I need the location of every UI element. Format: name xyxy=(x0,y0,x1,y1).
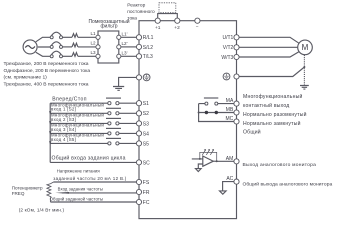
wire S1 xyxy=(50,102,136,104)
terminal FC xyxy=(136,199,149,206)
wire phase L2 from source to contactor xyxy=(38,46,50,48)
PE symbol left xyxy=(143,74,150,81)
wire U/T1 to motor xyxy=(239,37,299,43)
svg-text:MA: MA xyxy=(226,98,234,104)
breaker pole 2 xyxy=(72,43,78,47)
svg-text:R/L1: R/L1 xyxy=(143,35,154,41)
wire AC to earth xyxy=(223,182,234,191)
dashed earth lead from motor xyxy=(303,55,305,85)
terminal W/T3 xyxy=(221,54,239,61)
svg-text:S4: S4 xyxy=(143,131,149,137)
terminal MB xyxy=(226,107,239,115)
junction dot MB xyxy=(198,112,200,114)
PE symbol right xyxy=(223,73,230,80)
svg-text:Трехфазное, 200 В переменного: Трехфазное, 200 В переменного тока xyxy=(4,61,89,67)
wire breaker to filter L1 xyxy=(78,36,96,38)
contactor pole 2 xyxy=(50,42,62,49)
svg-text:FC: FC xyxy=(143,200,150,206)
svg-text:L3': L3' xyxy=(122,50,128,55)
terminal MC xyxy=(226,116,240,124)
svg-text:L2: L2 xyxy=(91,40,97,45)
svg-text:S3: S3 xyxy=(143,121,149,127)
AC source G1 xyxy=(23,40,37,54)
relay NO contact xyxy=(199,98,234,105)
breaker pole 1 xyxy=(72,34,78,38)
terminal ground left xyxy=(136,75,141,80)
svg-text:Общий входа задания цикла: Общий входа задания цикла xyxy=(52,155,126,162)
wire breaker to filter L2 xyxy=(78,46,96,48)
wire S5 xyxy=(50,142,136,144)
svg-text:Вход задания частоты: Вход задания частоты xyxy=(58,186,103,191)
svg-text:W/T3: W/T3 xyxy=(221,55,233,61)
wire ground to motor earth xyxy=(239,67,304,77)
relay common bracket xyxy=(199,104,234,122)
svg-text:S2: S2 xyxy=(143,111,149,117)
input labels xyxy=(52,96,87,102)
pot labels xyxy=(12,186,103,213)
svg-text:(см. примечание 1): (см. примечание 1) xyxy=(4,75,48,81)
junction dot AM xyxy=(216,160,218,162)
wire breaker to filter L3 xyxy=(78,55,96,57)
relay NC contact xyxy=(199,111,234,114)
svg-text:фильтр: фильтр xyxy=(100,24,117,30)
filter terminal L3 xyxy=(96,54,100,58)
filter terminal L2 xyxy=(96,45,100,49)
frequency supply note xyxy=(53,169,126,181)
analog output labels xyxy=(243,162,333,188)
earth symbol at motor xyxy=(300,86,309,90)
svg-text:Общий: Общий xyxy=(243,129,261,136)
wire phase L1 from source to contactor xyxy=(36,37,50,42)
svg-text:AC: AC xyxy=(226,176,233,182)
terminal FS xyxy=(136,179,149,186)
svg-text:Потенциометр: Потенциометр xyxy=(12,186,43,191)
terminal SC xyxy=(136,160,150,167)
contactor pole 1 xyxy=(50,32,62,39)
relay output labels xyxy=(243,93,307,136)
arrow junction S3 xyxy=(49,121,51,124)
svg-text:L1': L1' xyxy=(122,31,128,36)
terminal ground right xyxy=(234,74,239,79)
wire FS xyxy=(54,181,137,183)
svg-text:контактный выход: контактный выход xyxy=(243,102,289,109)
switch S4 xyxy=(106,128,121,135)
svg-text:(2 кОм, 1/4 Вт мин.): (2 кОм, 1/4 Вт мин.) xyxy=(19,207,65,212)
terminal S3 xyxy=(136,121,149,128)
svg-text:S1: S1 xyxy=(143,101,149,107)
svg-text:Общий выхода аналогового монит: Общий выхода аналогового монитора xyxy=(243,181,333,188)
switch S1 xyxy=(106,98,121,105)
svg-text:MC: MC xyxy=(226,116,234,122)
wire FR xyxy=(62,192,136,194)
svg-text:Общий заданной частоты: Общий заданной частоты xyxy=(50,197,104,202)
terminal R/L1 xyxy=(136,35,153,42)
svg-text:T/L3: T/L3 xyxy=(143,54,153,60)
arrow junction S5 xyxy=(49,141,51,144)
svg-text:AM: AM xyxy=(226,156,234,162)
terminal V/T2 xyxy=(223,45,239,52)
wire pole3 to breaker xyxy=(63,55,73,57)
svg-text:SC: SC xyxy=(143,160,150,166)
arrow junction S2 xyxy=(49,111,51,114)
svg-text:вход 3 [S4]: вход 3 [S4] xyxy=(51,127,76,132)
filter terminal L3' xyxy=(117,54,121,58)
wire AM xyxy=(213,160,234,162)
terminal minus xyxy=(195,18,200,30)
earth at AC xyxy=(220,191,227,194)
junction dot motor earth xyxy=(303,66,305,68)
DC reactor dashed box xyxy=(159,3,176,13)
terminal S/L2 xyxy=(136,44,153,50)
svg-text:Выход аналогового монитора: Выход аналогового монитора xyxy=(243,162,317,168)
wire V/T2 to motor xyxy=(239,46,298,48)
wire filter L3' to T/L3 xyxy=(121,55,136,57)
feedback resistor R-fb xyxy=(200,150,217,162)
wire pole2 to breaker xyxy=(63,46,73,48)
svg-text:L1: L1 xyxy=(91,31,97,36)
terminal U/T1 xyxy=(222,35,239,42)
terminal AC xyxy=(226,176,239,184)
svg-text:Напряжение питания: Напряжение питания xyxy=(57,169,100,174)
source voltage note xyxy=(4,61,91,87)
terminal T/L3 xyxy=(136,54,153,61)
svg-text:постоянного: постоянного xyxy=(127,10,155,15)
terminal S4 xyxy=(136,131,149,138)
breaker pole 3 xyxy=(72,53,78,57)
inverter box U1 xyxy=(139,21,237,219)
svg-text:L3: L3 xyxy=(91,50,97,55)
svg-text:Однофазное, 200 В переменного: Однофазное, 200 В переменного тока xyxy=(4,68,91,74)
terminal S2 xyxy=(136,111,149,117)
filter terminal L2' xyxy=(117,45,121,49)
svg-text:Нормально замкнутый: Нормально замкнутый xyxy=(243,120,301,127)
svg-text:FR: FR xyxy=(143,190,150,196)
terminal S1 xyxy=(136,101,149,108)
svg-text:тока: тока xyxy=(127,16,137,21)
switch S5 xyxy=(106,138,121,145)
wire phase L3 from source to contactor xyxy=(36,52,50,56)
svg-text:вход 4 [S5]: вход 4 [S5] xyxy=(51,137,76,142)
wire pole1 to breaker xyxy=(63,36,73,38)
earth wire from ground terminal xyxy=(119,77,137,86)
wire filter L2' to S/L2 xyxy=(121,46,136,48)
switch S3 xyxy=(106,118,121,125)
jumper link +1 to +2 xyxy=(158,14,178,19)
digital input bus xyxy=(49,103,51,162)
terminal AM xyxy=(226,156,239,164)
wire S3 xyxy=(50,122,136,124)
svg-text:V/T2: V/T2 xyxy=(223,45,234,51)
svg-text:Реактор: Реактор xyxy=(127,2,145,8)
wire FC xyxy=(50,201,136,203)
contactor pole 3 xyxy=(50,51,62,58)
filter terminal L1' xyxy=(117,35,121,39)
svg-text:U/T1: U/T1 xyxy=(222,35,233,41)
svg-text:MB: MB xyxy=(226,107,234,113)
svg-text:+1: +1 xyxy=(155,25,161,31)
switch S2 xyxy=(106,108,121,115)
terminal +1 xyxy=(155,18,161,31)
motor M1 xyxy=(298,40,313,55)
wire filter L1' to R/L1 xyxy=(121,36,136,38)
analog monitor op-amp A1 xyxy=(192,156,214,166)
terminal +2 xyxy=(174,18,180,31)
wire SC xyxy=(50,161,136,163)
svg-text:заданной частоты 20 мА 12 В.): заданной частоты 20 мА 12 В.) xyxy=(53,175,126,181)
svg-text:Трехфазное, 400 В переменного: Трехфазное, 400 В переменного тока xyxy=(4,81,89,87)
filter terminal L1 xyxy=(96,35,100,39)
svg-text:FREQ: FREQ xyxy=(12,191,25,196)
svg-text:Многофункциональный: Многофункциональный xyxy=(243,93,303,100)
svg-text:S/L2: S/L2 xyxy=(143,45,154,51)
terminal FR xyxy=(136,189,149,196)
svg-text:−: − xyxy=(196,26,199,31)
svg-text:вход 1 [S2]: вход 1 [S2] xyxy=(51,107,76,112)
wire W/T3 to motor xyxy=(239,52,299,57)
terminal S5 xyxy=(136,141,149,148)
terminal MA xyxy=(226,98,239,106)
earth symbol below filter xyxy=(113,87,124,91)
svg-text:вход 2 [S3]: вход 2 [S3] xyxy=(51,117,76,122)
DC reactor label xyxy=(127,2,155,21)
potentiometer FREQ xyxy=(47,182,54,202)
noise filter box xyxy=(88,18,129,63)
wire S4 xyxy=(50,132,136,134)
arrow junction S4 xyxy=(49,131,51,134)
svg-text:FS: FS xyxy=(143,180,150,186)
svg-text:+2: +2 xyxy=(174,25,180,31)
svg-text:L2': L2' xyxy=(122,41,128,46)
wiper arrow xyxy=(55,192,69,194)
wire S2 xyxy=(50,112,136,114)
earth at amp xyxy=(196,169,202,172)
amp minus input to earth xyxy=(198,164,203,168)
svg-text:M: M xyxy=(302,43,309,52)
svg-text:S5: S5 xyxy=(143,141,149,147)
svg-text:Нормально разомкнутый: Нормально разомкнутый xyxy=(243,111,307,118)
